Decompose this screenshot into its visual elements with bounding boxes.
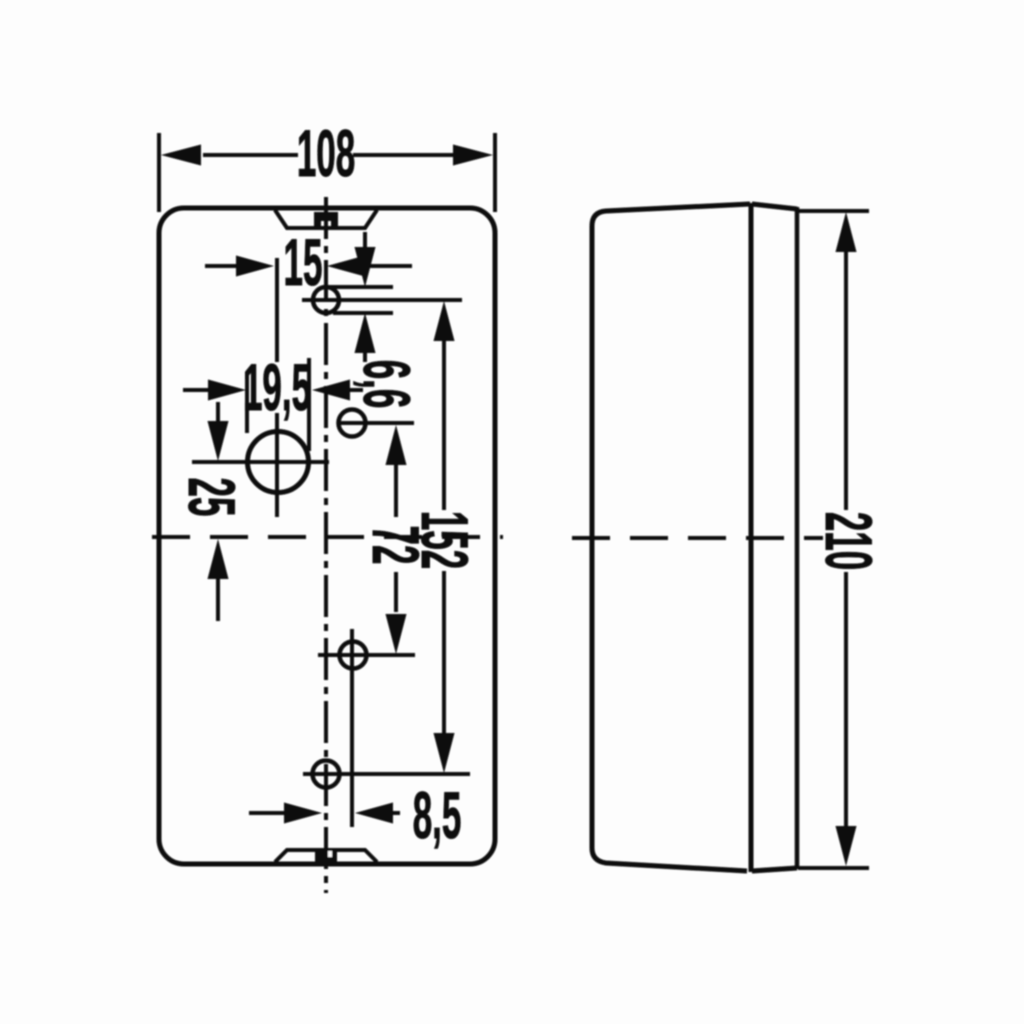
dimension 6,6 lower arrow (355, 313, 376, 353)
front view body outline (159, 208, 495, 864)
dimension 8,5 right tail (392, 811, 400, 815)
hole H3 center line (318, 653, 415, 657)
big circle horizontal center line (192, 460, 329, 464)
side view housing outline (592, 204, 750, 871)
dimension 15 line left (205, 264, 238, 268)
svg-text:25: 25 (174, 478, 248, 517)
dimension line 108 left segment (203, 153, 298, 157)
side view top right edge (752, 204, 797, 209)
svg-text:8,5: 8,5 (413, 779, 462, 853)
svg-text:15: 15 (284, 226, 323, 300)
arrowhead 108 left (161, 145, 201, 166)
dimension 210 top arrow (836, 212, 857, 252)
hole H1 top tangent line (329, 285, 393, 289)
top notch trapezoid (275, 210, 377, 228)
horizontal dashed centerline front view (152, 535, 503, 539)
dimension 72 bottom arrow (394, 572, 398, 612)
extension line 210 bottom (798, 866, 869, 870)
arrowhead 15 right (327, 256, 365, 277)
arrowhead 15 left (236, 256, 274, 277)
dimension 210 bottom arrow (844, 572, 848, 829)
dimension 6,6 upper arrow (363, 232, 367, 248)
svg-text:210: 210 (811, 512, 885, 570)
dimension 19,5 right tail (349, 388, 363, 392)
extension line left for 108 (157, 133, 161, 212)
dimension 152 top arrow (434, 301, 455, 341)
bottom mounting tab (315, 848, 337, 865)
hole H3 vertical line down to 8,5 dimension (350, 629, 354, 827)
vertical dash-dot centerline (324, 197, 328, 893)
dimension 19,5 line left tail (183, 388, 210, 392)
extension bar 19,5 right tangent (307, 358, 311, 451)
hole H2 (339, 410, 366, 437)
hole H4 bottom (313, 761, 340, 788)
side view right edge (795, 207, 800, 869)
hole H2 center line (337, 421, 414, 425)
extension line 210 top (798, 209, 869, 213)
side view dashed centerline (572, 536, 823, 540)
bottom notch trapezoid (275, 850, 377, 862)
dimension 25 lower arrow (208, 539, 229, 579)
side view lens parting line (749, 203, 754, 872)
arrowhead 8,5 left (284, 803, 322, 824)
hole H3 (340, 642, 367, 669)
dimension line 108 right segment (353, 153, 455, 157)
dimension 8,5 left tail (249, 811, 287, 815)
dimension 15 line right (364, 264, 412, 268)
side view bottom right edge (752, 868, 797, 871)
top mounting tab (314, 212, 338, 229)
hole H1 center line (302, 298, 462, 302)
dimension 152 bottom arrow (442, 571, 446, 734)
arrowhead 19,5 right (312, 380, 350, 401)
big circle 19,5 hole (248, 432, 309, 493)
hole H1 bottom tangent line (333, 311, 393, 315)
hole H1 top (313, 287, 339, 313)
arrowhead 108 right (453, 145, 493, 166)
extension line right for 108 (493, 133, 497, 212)
svg-text:19,5: 19,5 (243, 351, 311, 425)
arrowhead 19,5 left (208, 380, 246, 401)
svg-text:152: 152 (407, 511, 481, 569)
arrowhead 8,5 right (355, 803, 393, 824)
svg-text:108: 108 (297, 117, 355, 191)
dimension 72 top arrow (386, 425, 407, 465)
dimension 25 upper arrow (216, 402, 220, 424)
extension bar 19,5 left tangent (245, 372, 249, 433)
hole H4 center line (303, 772, 470, 776)
extension bar from big circle up (275, 258, 279, 517)
svg-text:6,6: 6,6 (349, 360, 423, 409)
